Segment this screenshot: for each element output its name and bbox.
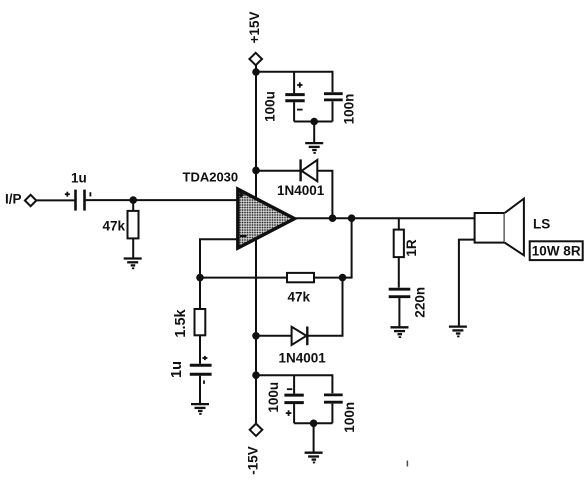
svg-text:47k: 47k: [103, 218, 126, 233]
junction: feedback node: [339, 274, 347, 282]
wire to ground (bottom bank): [313, 423, 315, 452]
capacitor C1 1u (input electrolytic): [65, 190, 91, 211]
svg-text:1.5k: 1.5k: [173, 308, 189, 337]
wire -15V rail to D2: [256, 335, 292, 337]
ground (top cap bank): [305, 143, 323, 153]
ground (C4): [191, 404, 209, 414]
capacitor C4 1u (feedback electrolytic): [190, 356, 212, 404]
op-amp U1 TDA2030: [238, 189, 295, 248]
junction: -15V rail / bottom cap bank: [252, 371, 260, 379]
junction: output node (feedback branch): [348, 214, 356, 222]
resistor R2 47k (feedback): [287, 273, 314, 282]
svg-text:+15V: +15V: [247, 12, 262, 44]
svg-text:1N4001: 1N4001: [277, 183, 325, 198]
svg-text:TDA2030: TDA2030: [183, 169, 239, 184]
svg-text:I/P: I/P: [5, 192, 22, 207]
wire op-amp inverting input: [200, 239, 238, 277]
ground (speaker): [449, 327, 467, 337]
junction: -15V rail / D2: [252, 332, 260, 340]
ground (bottom cap bank): [305, 453, 323, 463]
capacitor C3 100n (+rail): [324, 94, 343, 122]
ground (input R1): [124, 259, 142, 269]
svg-text:1u: 1u: [71, 171, 87, 186]
junction: top cap bank ground node: [310, 118, 318, 126]
diode D1 1N4001 (output to +15V): [301, 159, 318, 181]
capacitor C5 100u (-rail electrolytic): [284, 375, 303, 423]
wire bottom cap bank bottom rail: [294, 422, 332, 424]
junction: input node: [129, 196, 137, 204]
wire I/P terminal to C1: [36, 199, 74, 201]
wire D1 to output node: [317, 171, 332, 218]
svg-text:1u: 1u: [169, 361, 185, 378]
svg-text:-15V: -15V: [246, 446, 261, 475]
power terminal -15V: [250, 424, 263, 436]
wire top cap bank bottom rail: [294, 121, 332, 123]
diode D2 1N4001 (-15V to output): [292, 327, 308, 346]
wire R2 to feedback node: [314, 277, 343, 279]
wire to ground (top bank): [313, 122, 315, 143]
capacitor C2 100u (+rail electrolytic): [285, 72, 304, 122]
input terminal I/P: [25, 195, 36, 206]
stray scan mark: [406, 461, 408, 467]
wire bottom cap bank top rail: [256, 375, 332, 393]
ground (C7): [391, 327, 409, 337]
svg-text:100n: 100n: [342, 402, 357, 433]
capacitor C7 220n (Zobel): [389, 289, 411, 326]
wire inverting node to R2: [200, 277, 287, 279]
resistor R3 1.5k: [195, 278, 206, 364]
junction: bottom cap bank ground node: [310, 420, 318, 428]
wire top cap bank top rail: [256, 72, 333, 93]
svg-text:100n: 100n: [341, 94, 356, 125]
junction: output node (D1/D2 branch): [329, 214, 337, 222]
wire op-amp output to speaker: [295, 217, 475, 219]
svg-text:1N4001: 1N4001: [279, 350, 327, 365]
junction: +15V rail / cap bank: [252, 68, 260, 76]
wire +15V rail to D1: [256, 170, 301, 172]
svg-text:LS: LS: [533, 217, 550, 232]
svg-text:100u: 100u: [263, 91, 278, 122]
capacitor C6 100n (-rail): [324, 395, 343, 423]
resistor R1 47k (input bias): [128, 200, 139, 258]
svg-text:220n: 220n: [412, 287, 427, 318]
svg-text:10W 8R: 10W 8R: [532, 244, 581, 259]
resistor R4 1R (Zobel): [394, 218, 404, 287]
wire +15V rail vertical (x=256, behind U1): [255, 65, 257, 424]
wire C1 to op-amp + input: [86, 199, 238, 201]
speaker LS: [475, 199, 524, 256]
wire feedback node down to D2: [308, 278, 343, 336]
svg-text:47k: 47k: [288, 290, 311, 305]
svg-text:1R: 1R: [404, 239, 419, 257]
junction: +15V rail / D1: [252, 167, 260, 175]
power terminal +15V: [249, 53, 262, 65]
wire speaker return to ground: [459, 240, 475, 327]
label 10W 8R (boxed): [530, 241, 583, 260]
svg-text:100u: 100u: [266, 382, 281, 413]
junction: inverting node: [196, 274, 204, 282]
wire output to feedback row (jog): [343, 218, 352, 277]
